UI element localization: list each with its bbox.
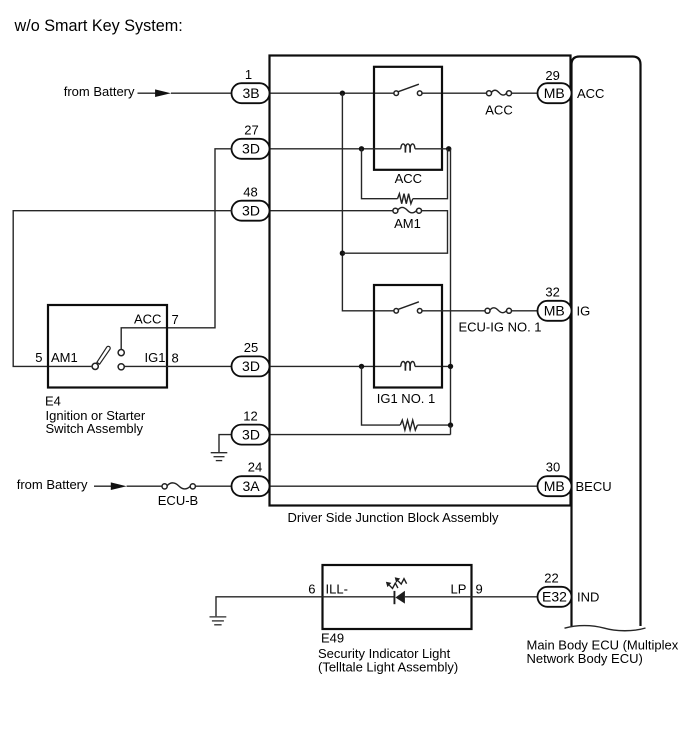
node: AM1 return junction (340, 251, 345, 256)
svg-text:27: 27 (244, 122, 258, 137)
svg-text:12: 12 (243, 408, 257, 423)
wire 3D12 ground row (219, 435, 232, 453)
node: IG1 coil right (448, 364, 453, 369)
ground G1 (211, 453, 228, 461)
svg-text:from Battery: from Battery (64, 84, 135, 99)
fuse ECU-B (162, 484, 167, 489)
svg-text:ACC: ACC (485, 103, 512, 118)
svg-text:3D: 3D (242, 426, 260, 442)
svg-text:32: 32 (545, 285, 559, 300)
battery arrow (bottom) (94, 485, 112, 487)
svg-text:E4: E4 (45, 393, 61, 408)
svg-text:8: 8 (172, 351, 179, 366)
wire 3D27 to ignition switch ACC (121, 149, 232, 350)
svg-text:9: 9 (476, 581, 483, 596)
wire 3B row (171, 92, 232, 94)
svg-text:3B: 3B (242, 85, 259, 101)
relay ACC coil (401, 144, 415, 153)
svg-text:BECU: BECU (576, 479, 612, 494)
fuse ACC (487, 91, 492, 96)
wire ECU-B row (127, 485, 163, 487)
svg-text:E49: E49 (321, 631, 344, 646)
svg-text:IG: IG (577, 304, 591, 319)
fuse AM1 (270, 210, 393, 212)
svg-text:5: 5 (35, 350, 42, 365)
svg-text:ACC: ACC (134, 312, 161, 327)
svg-text:3D: 3D (242, 358, 260, 374)
wire E49 to E32 (472, 596, 538, 598)
svg-text:E32: E32 (542, 589, 567, 605)
wire AM1 to battery junction (342, 211, 447, 254)
relay IG1 contact right (417, 309, 422, 314)
junction block J/B box (270, 56, 571, 506)
svg-text:IG1: IG1 (145, 350, 166, 365)
node: resistor/ground junction (448, 422, 453, 427)
node: ACC coil left (359, 146, 364, 151)
svg-text:ECU-IG NO. 1: ECU-IG NO. 1 (458, 320, 541, 335)
svg-text:w/o Smart Key System:: w/o Smart Key System: (14, 17, 183, 35)
svg-text:AM1: AM1 (51, 350, 78, 365)
svg-text:22: 22 (544, 571, 558, 586)
svg-text:24: 24 (248, 460, 262, 475)
svg-text:IND: IND (577, 590, 599, 605)
svg-text:7: 7 (172, 312, 179, 327)
svg-text:6: 6 (308, 581, 315, 596)
node: ACC coil right (446, 146, 451, 151)
battery arrow (top) (138, 92, 157, 94)
svg-text:MB: MB (544, 303, 565, 319)
svg-text:(Telltale Light Assembly): (Telltale Light Assembly) (318, 660, 458, 675)
node: IG1 coil left (359, 364, 364, 369)
svg-text:Driver Side Junction Block Ass: Driver Side Junction Block Assembly (288, 510, 499, 525)
E4 contact IG1 (118, 364, 124, 370)
LED D1 (386, 577, 407, 604)
svg-text:LP: LP (451, 581, 467, 596)
svg-text:Network Body ECU): Network Body ECU) (527, 651, 643, 666)
relay IG1 coil (401, 361, 415, 370)
ECU torn bottom edge (565, 626, 646, 631)
relay IG1 switch blade (398, 302, 419, 310)
Main Body ECU box (572, 57, 641, 627)
E4 switch lever (97, 346, 110, 364)
fuse ECU-IG NO. 1 (485, 308, 490, 313)
svg-text:30: 30 (546, 460, 560, 475)
relay ACC box (374, 67, 442, 170)
wire battery feed vertical (342, 93, 393, 311)
relay ACC switch blade (398, 84, 419, 92)
wire IG1 coil row (270, 365, 401, 367)
relay IG1 contact left (394, 309, 399, 314)
wire ground to E49 (216, 597, 323, 617)
svg-text:3D: 3D (242, 203, 260, 219)
svg-text:3D: 3D (242, 141, 260, 157)
svg-text:1: 1 (245, 67, 252, 82)
svg-text:ECU-B: ECU-B (158, 493, 198, 508)
svg-text:48: 48 (243, 184, 257, 199)
relay ACC contact right (417, 91, 422, 96)
E4 contact AM1 (92, 363, 98, 369)
svg-text:ACC: ACC (395, 171, 422, 186)
svg-text:ACC: ACC (577, 86, 604, 101)
svg-text:AM1: AM1 (394, 216, 421, 231)
node: battery feed junction (340, 91, 345, 96)
relay ACC contact left (394, 91, 399, 96)
wire ACC coil row (270, 148, 401, 150)
svg-text:from Battery: from Battery (17, 477, 88, 492)
svg-text:25: 25 (244, 340, 258, 355)
wire 3D48 to ignition switch AM1 (13, 211, 232, 367)
svg-text:MB: MB (544, 85, 565, 101)
wire IG1 row from switch to 3D25 (124, 365, 232, 367)
wire IG1 switch output row (422, 310, 485, 312)
svg-text:MB: MB (544, 478, 565, 494)
security indicator light E49 box (323, 565, 472, 629)
resistor R-ACC (parallel with ACC coil) (362, 149, 398, 199)
ignition switch E4 box (48, 305, 167, 388)
svg-text:29: 29 (545, 68, 559, 83)
svg-text:ILL-: ILL- (326, 581, 348, 596)
E4 contact ACC (118, 350, 124, 356)
ground G2 (210, 617, 227, 625)
svg-text:Switch Assembly: Switch Assembly (46, 421, 144, 436)
wire coils common vertical (450, 149, 452, 425)
resistor R-IG1 (parallel with IG1 coil) (362, 366, 401, 425)
relay IG1 NO. 1 box (374, 285, 442, 388)
svg-text:3A: 3A (242, 478, 260, 494)
svg-text:IG1 NO. 1: IG1 NO. 1 (377, 391, 436, 406)
wire inside E49 (323, 596, 394, 598)
